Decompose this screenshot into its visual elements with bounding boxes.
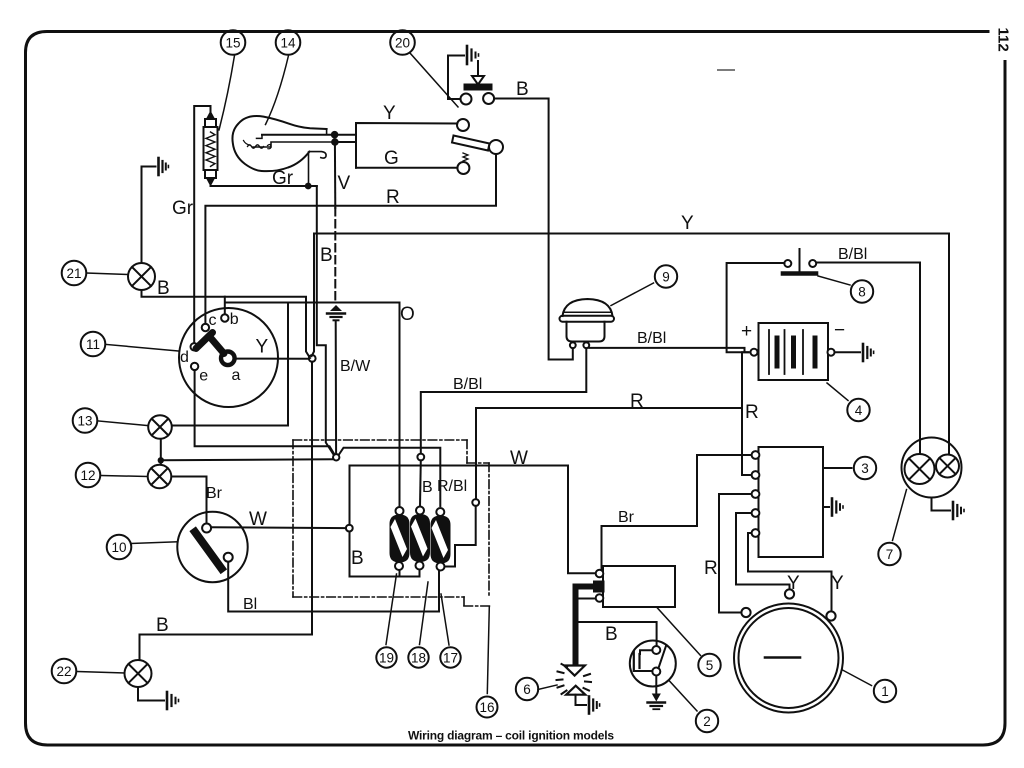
callout circle 2	[696, 710, 718, 732]
svg-text:B: B	[422, 479, 433, 496]
callout circle 19	[376, 647, 396, 667]
coil 19	[391, 507, 409, 570]
wire G from bracket to switch20 lower contact	[356, 167, 457, 169]
callout circle 17	[440, 647, 460, 667]
callout circle 8	[851, 280, 873, 302]
wire Gr resistor top to terminal d	[194, 106, 210, 343]
terminal a ring	[221, 352, 235, 366]
contact breaker 2	[630, 641, 676, 687]
coil 17	[432, 508, 450, 571]
svg-text:16: 16	[479, 700, 494, 715]
resistor R15 body	[204, 106, 218, 186]
svg-text:R/Bl: R/Bl	[437, 478, 467, 495]
wire coil17 ground link	[339, 448, 441, 506]
callout line 15	[219, 56, 235, 131]
svg-text:Y: Y	[831, 573, 844, 594]
ground top right	[467, 46, 479, 64]
terminal c	[202, 324, 209, 331]
flywheel magneto 1	[734, 589, 843, 712]
svg-text:O: O	[400, 304, 415, 325]
wire lamp13 bottom to junction	[160, 440, 162, 461]
callout circle 15	[221, 30, 246, 55]
terminal e	[191, 363, 198, 370]
callout line 1	[843, 670, 872, 686]
svg-text:17: 17	[443, 650, 458, 665]
svg-text:Br: Br	[618, 509, 635, 526]
wire R/Bl connector to coil17 bottom	[445, 506, 476, 567]
spark plug 6	[557, 664, 592, 695]
callout circle 9	[655, 265, 677, 287]
wire B lamp21 bottom to terminal b	[142, 290, 311, 358]
svg-text:B/Bl: B/Bl	[637, 330, 666, 347]
wire lamp13 right to B net riser	[173, 303, 289, 426]
callout line 6	[538, 685, 557, 690]
switch10 top terminal	[202, 524, 211, 533]
wire rectifier T4 to flywheel top	[736, 513, 790, 589]
wire to ground from left contact	[448, 56, 464, 100]
svg-text:G: G	[384, 148, 399, 169]
svg-text:W: W	[249, 509, 267, 530]
svg-text:Y: Y	[383, 103, 396, 124]
wire plug to ground	[576, 695, 587, 705]
svg-text:V: V	[338, 173, 351, 194]
svg-text:8: 8	[858, 284, 866, 299]
svg-text:B/W: B/W	[340, 358, 371, 375]
brake switch contacts	[461, 94, 472, 105]
ignition coil 14 body	[232, 116, 334, 186]
ground breaker	[648, 694, 666, 709]
svg-text:d: d	[180, 349, 189, 366]
connector W node	[346, 525, 353, 532]
callout circle 10	[107, 535, 132, 560]
wire Br rectifier T1 to box5	[602, 455, 751, 569]
wire B/Bl horn to connector	[421, 348, 587, 453]
svg-text:Gr: Gr	[172, 198, 194, 219]
connector B/W node	[333, 454, 339, 460]
callout line 3	[851, 467, 853, 469]
wire lamp21 top to ground	[142, 167, 156, 264]
wire Y riser to long Y run	[312, 234, 314, 357]
callout line 9	[611, 283, 654, 306]
callout circle 6	[516, 678, 538, 700]
callout circle 16	[477, 697, 498, 718]
wire lamp22 to ground	[138, 687, 164, 701]
wire switch8 left to battery plus	[727, 263, 785, 352]
svg-text:20: 20	[395, 35, 410, 50]
svg-text:B/Bl: B/Bl	[453, 376, 482, 393]
lamp 13	[148, 415, 172, 439]
svg-text:3: 3	[861, 461, 869, 476]
svg-text:B/Bl: B/Bl	[838, 246, 867, 263]
svg-text:B: B	[605, 624, 618, 645]
wire B down from connector to lamp22	[140, 362, 313, 660]
node dot 13/12	[158, 457, 164, 463]
callout circle 18	[408, 647, 428, 667]
wire Y terminal a to connector	[235, 358, 310, 360]
smudge artifact	[718, 69, 734, 71]
rectifier ground stub	[823, 506, 829, 508]
callout line 2	[670, 681, 698, 711]
svg-text:+: +	[741, 321, 752, 342]
svg-text:R: R	[630, 391, 644, 412]
wire W switch10 to connector	[211, 526, 346, 529]
svg-text:21: 21	[66, 266, 81, 281]
svg-text:14: 14	[280, 35, 296, 50]
svg-text:a: a	[232, 367, 241, 384]
wire b terminal drop	[224, 297, 226, 315]
svg-text:Y: Y	[681, 213, 694, 234]
node junction dot upper	[331, 131, 339, 139]
callout line 22	[78, 672, 125, 674]
key symbol	[196, 333, 224, 354]
wire junction to B/W connector	[161, 459, 333, 460]
callout circle 1	[874, 680, 896, 702]
wire Gr riser from resistor run	[317, 186, 334, 455]
callout line 17	[441, 594, 449, 645]
wire rectifier T5 to flywheel right	[748, 533, 832, 611]
svg-text:1: 1	[881, 684, 889, 699]
wire B/W ground lead down to connector	[335, 322, 337, 454]
lamp 12	[148, 465, 172, 489]
lamp 7 twin bulb	[902, 438, 962, 498]
callout line 21	[87, 273, 129, 275]
svg-text:Bl: Bl	[243, 596, 257, 613]
callout circle 21	[62, 261, 87, 286]
callout circle 7	[878, 543, 900, 565]
callout line 12	[102, 476, 148, 477]
svg-text:R: R	[386, 187, 400, 208]
node junction dot lower	[331, 138, 339, 146]
svg-text:b: b	[230, 311, 239, 328]
svg-text:B: B	[157, 278, 170, 299]
svg-text:6: 6	[523, 682, 531, 697]
svg-text:112: 112	[995, 28, 1012, 52]
ground chassis on V wire	[327, 305, 345, 320]
ignition coil box 5	[594, 566, 675, 607]
dashed enclosure 16	[293, 440, 490, 606]
ground spark plug	[589, 697, 600, 714]
wire coil14 upper output to Y/G bracket	[262, 134, 356, 136]
svg-text:B: B	[516, 79, 529, 100]
svg-text:5: 5	[706, 658, 714, 673]
callout circle 14	[276, 30, 301, 55]
wire coil18 top to connector	[419, 460, 422, 506]
wire Y from bracket to switch20 upper contact	[356, 123, 457, 168]
switch 20 kill switch	[452, 119, 503, 174]
ground rectifier	[832, 499, 843, 516]
svg-text:Y: Y	[256, 337, 269, 358]
callout line 7	[893, 490, 907, 541]
svg-text:11: 11	[86, 337, 100, 352]
svg-text:R: R	[745, 402, 759, 423]
svg-text:Gr: Gr	[272, 168, 294, 189]
svg-text:22: 22	[56, 664, 71, 679]
lamp 22	[125, 660, 152, 687]
svg-text:Br: Br	[206, 485, 223, 502]
svg-text:4: 4	[855, 403, 863, 418]
callout line 11	[107, 345, 180, 352]
svg-text:B: B	[351, 548, 364, 569]
callout line 10	[131, 542, 178, 544]
ground lamp7	[953, 502, 964, 519]
callout circle 5	[698, 654, 720, 676]
callout line 14	[266, 56, 289, 125]
callout line 13	[99, 421, 148, 426]
svg-text:Y: Y	[787, 573, 800, 594]
callout circle 20	[390, 30, 415, 55]
rectifier terminals	[752, 451, 760, 537]
callout line 4	[827, 383, 848, 401]
ground lamp21	[159, 158, 169, 175]
svg-text:13: 13	[77, 413, 92, 428]
svg-text:7: 7	[886, 547, 894, 562]
wire 13/12 dot to lamp12	[160, 460, 162, 464]
callout circle 13	[73, 408, 98, 433]
svg-text:B: B	[320, 245, 333, 266]
wire V solid upper	[334, 142, 336, 208]
callout line 18	[420, 582, 429, 645]
callout circle 11	[81, 332, 106, 357]
switch 20 push button bar	[465, 61, 492, 90]
battery 4	[751, 323, 835, 380]
svg-text:9: 9	[662, 269, 670, 284]
callout circle 12	[76, 463, 101, 488]
lamp 21	[128, 263, 155, 290]
wire Gr resistor bottom horizontal	[211, 185, 317, 187]
connector node coil18	[417, 454, 424, 461]
ignition switch 11 body	[179, 308, 278, 407]
svg-text:e: e	[199, 368, 208, 385]
wire breaker to ground	[655, 676, 657, 695]
svg-text:−: −	[834, 320, 845, 341]
svg-text:W: W	[510, 448, 528, 469]
wire Bl switch10 down and to coil17	[228, 562, 439, 612]
wire R rectifier T3 to flywheel left	[719, 494, 751, 613]
svg-text:15: 15	[225, 35, 240, 50]
terminal d	[191, 343, 198, 350]
wire B box5 to contact breaker	[577, 599, 657, 646]
svg-text:R: R	[704, 558, 718, 579]
HT lead thick to spark plug	[576, 587, 595, 663]
wire e terminal down	[195, 370, 335, 454]
svg-text:Wiring diagram – coil ignition: Wiring diagram – coil ignition models	[408, 729, 614, 743]
wire R switch20 pivot down-left to terminal c	[205, 154, 496, 324]
wire coil14 lower output to Y/G bracket	[335, 141, 356, 143]
wire V dashed section	[334, 208, 336, 304]
wire horn right terminal to battery plus	[589, 348, 744, 352]
switch 8	[783, 249, 816, 274]
terminal b	[221, 314, 228, 321]
horn 9	[560, 299, 615, 348]
wire W riser and main run to coil box5	[350, 466, 596, 574]
wire coil19 bottom stub	[399, 571, 401, 577]
callout circle 22	[52, 659, 77, 684]
rectifier 3 box	[759, 447, 824, 557]
svg-text:18: 18	[411, 650, 426, 665]
switch10 lever	[195, 532, 222, 569]
wire rectifier right to callout 3	[823, 467, 852, 469]
callout line 8	[818, 276, 850, 285]
svg-text:12: 12	[80, 468, 95, 483]
svg-text:c: c	[209, 312, 217, 329]
callout line 16	[487, 607, 489, 694]
callout line 19	[386, 574, 397, 645]
ground battery	[863, 344, 874, 361]
wire B coil return from connector	[350, 532, 420, 577]
svg-text:B: B	[156, 615, 169, 636]
switch 10 light switch body	[177, 512, 247, 582]
wire B switch20 right contact to horn left terminal	[494, 99, 573, 360]
wire R branch to R/Bl connector	[476, 408, 742, 499]
ground lamp22	[167, 692, 179, 709]
svg-text:19: 19	[379, 650, 394, 665]
callout line 20	[410, 53, 458, 107]
connector node R/Bl	[472, 499, 479, 506]
wire Br lamp12 to switch10	[172, 477, 206, 524]
callout line 5	[657, 608, 701, 656]
svg-text:2: 2	[703, 714, 711, 729]
wire B/Bl switch8 right to lamp7 left bulb	[818, 263, 921, 455]
svg-text:10: 10	[111, 540, 126, 555]
wire Y long run to lamp7	[314, 234, 949, 455]
wire lamp7 to ground	[932, 498, 951, 511]
wire battery minus to ground	[835, 351, 861, 353]
switch10 right terminal	[224, 553, 233, 562]
callout circle 4	[847, 399, 869, 421]
coil 18	[411, 507, 429, 570]
wire O from b junction to coil19	[225, 303, 400, 507]
wire R battery feed	[742, 352, 751, 475]
callout circle 3	[854, 457, 876, 479]
junction coil14 bottom tap	[305, 183, 312, 190]
connector node	[309, 355, 316, 362]
